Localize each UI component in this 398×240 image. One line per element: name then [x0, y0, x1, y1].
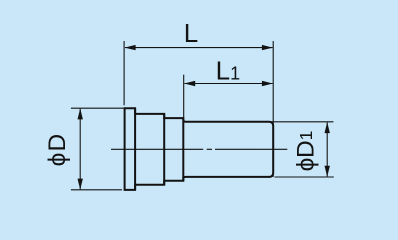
dimension L1 arrow left	[184, 81, 195, 86]
dimension phiD1 arrow bottom	[325, 166, 330, 177]
svg-text:1: 1	[296, 131, 316, 141]
svg-text:L: L	[184, 18, 198, 48]
svg-text:D: D	[44, 134, 71, 152]
dimension L arrow right	[262, 45, 273, 50]
dimension L line	[125, 47, 273, 49]
dimension phiD arrow top	[78, 108, 83, 119]
dimension phiD line	[79, 109, 81, 189]
dimension phiD1 arrow top	[325, 122, 330, 133]
dimension L extension line right	[272, 41, 274, 177]
dimension phiD arrow bottom	[78, 179, 83, 190]
dimension phiD extension line bottom	[71, 189, 122, 191]
dimension L1 extension line left	[183, 75, 185, 118]
centerline	[111, 148, 287, 150]
dimension L1 arrow right	[262, 81, 273, 86]
svg-text:L1: L1	[216, 55, 240, 85]
dimension L arrow left	[125, 45, 136, 50]
svg-text:ϕ: ϕ	[293, 158, 320, 172]
step chord line section2/section3	[163, 114, 165, 185]
dimension phiD1 extension line top	[271, 121, 333, 123]
svg-text:D: D	[293, 140, 320, 158]
dimension L extension line left	[123, 41, 125, 105]
part outline: stepped plug body	[125, 108, 274, 190]
dimension phiD1 line	[326, 122, 328, 176]
step chord line section3/cylinder	[182, 118, 184, 181]
dimension phiD extension line top	[71, 107, 125, 109]
svg-text:ϕ: ϕ	[44, 153, 71, 167]
dimension L1 line	[185, 83, 273, 85]
dimension phiD1 extension line bottom	[275, 176, 334, 178]
step chord line flange/section2	[134, 108, 136, 190]
